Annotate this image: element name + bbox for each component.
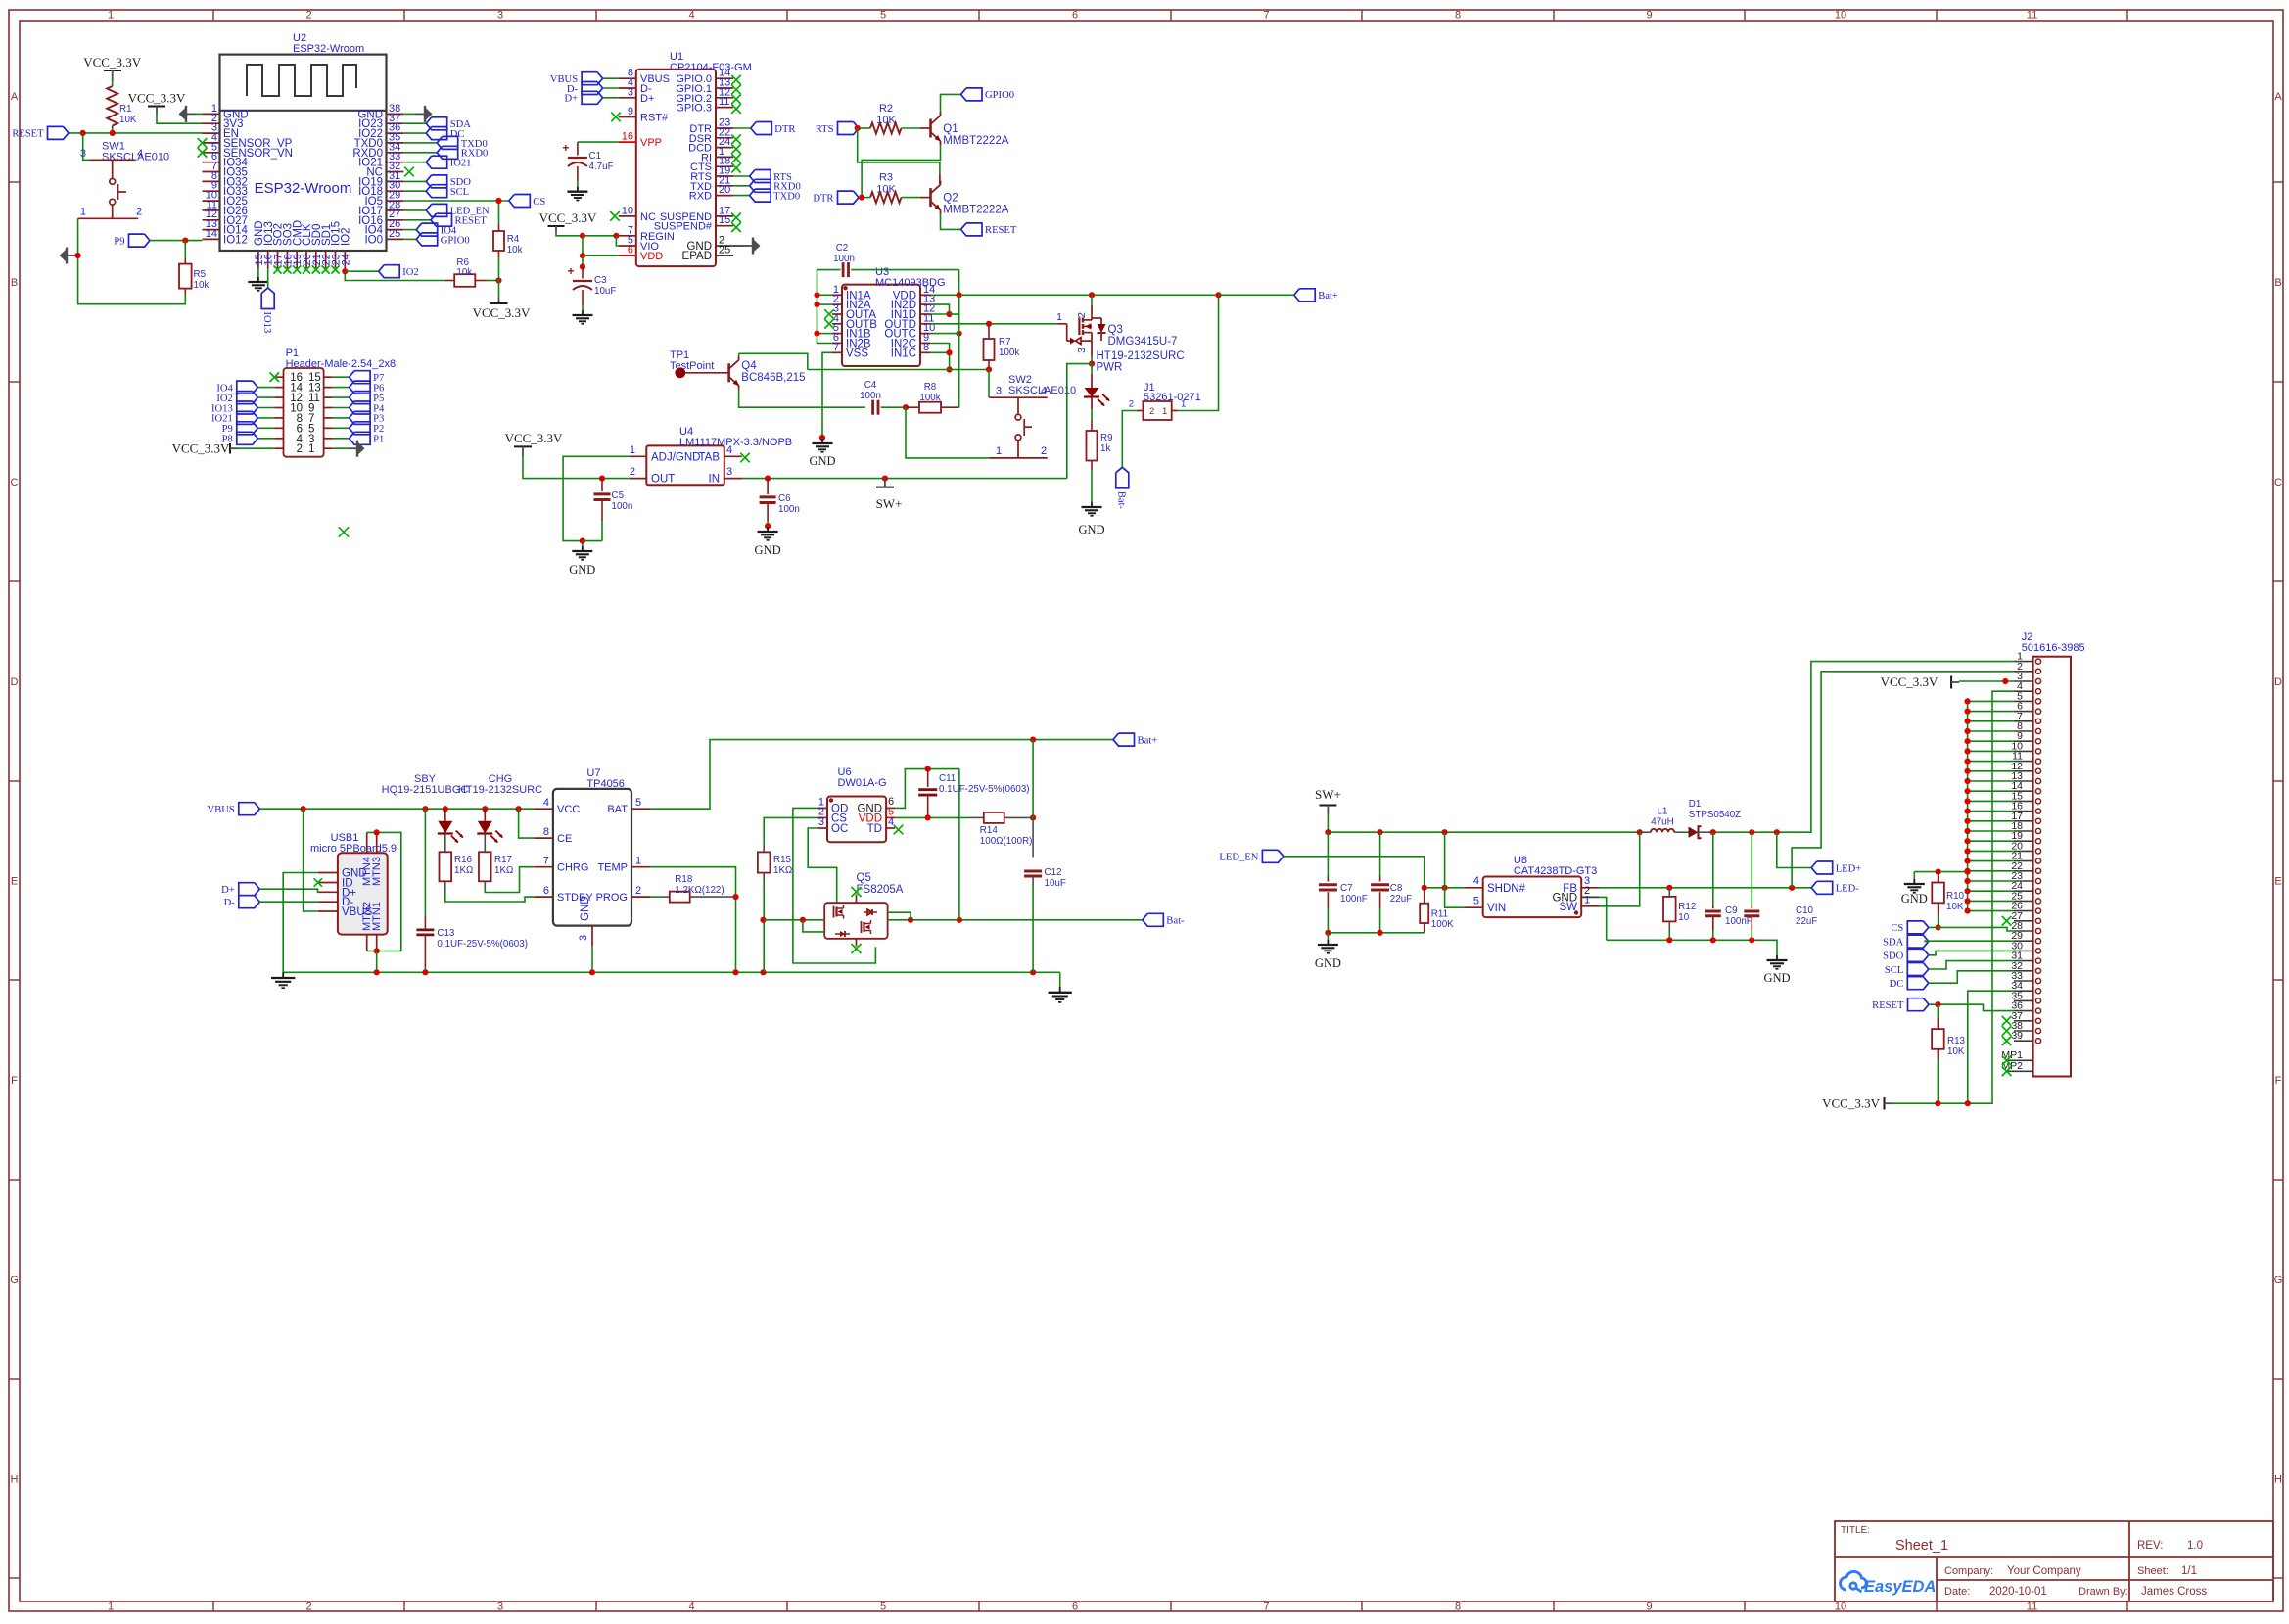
netflag P9 (P1 left) (257, 427, 274, 429)
svg-text:10k: 10k (194, 280, 210, 291)
U1 pin 18 CTS (716, 165, 733, 167)
svg-text:4: 4 (137, 148, 143, 160)
U2 pin 36 IO22 (387, 132, 404, 134)
U3 pin 2 IN2A (832, 303, 842, 305)
no-connect X P1 pin16 (270, 372, 280, 382)
J2 pin 36 (2014, 1010, 2033, 1012)
resistor R2 10K (zigzag) (870, 123, 902, 134)
junction (946, 311, 952, 317)
svg-text:VCC_3.3V: VCC_3.3V (128, 91, 186, 106)
svg-text:MTN1: MTN1 (371, 902, 383, 931)
USB1 pin VBUS (318, 910, 338, 912)
junction (957, 292, 962, 298)
J2 pin 18 (2014, 830, 2033, 832)
svg-text:MMBT2222A: MMBT2222A (943, 205, 1008, 216)
svg-text:4: 4 (726, 444, 732, 456)
wire J2 pin 15 (1968, 800, 2014, 802)
svg-text:SW+: SW+ (876, 496, 903, 511)
P1 pin 4 (274, 438, 283, 440)
IC U6 DW01A-G (827, 797, 886, 843)
wire R7 bottom row (808, 369, 989, 371)
U2 pin 12 IO27 (203, 219, 220, 221)
no-connect X Q5 top (852, 887, 862, 897)
svg-text:C12: C12 (1045, 867, 1062, 878)
svg-text:100n: 100n (833, 254, 855, 264)
wire Q1 collector to GPIO0 (941, 94, 961, 112)
resistor R16 1K (444, 843, 446, 852)
gnd earth boost output (1776, 955, 1778, 960)
P1 pin 6 (274, 427, 283, 429)
netflag TXD0 (U1 RXD) (733, 195, 750, 197)
J2 pin 8 (2014, 730, 2033, 732)
svg-text:3: 3 (497, 10, 503, 22)
U2 pin 16 IO13 (267, 251, 269, 268)
svg-text:P4: P4 (373, 403, 385, 414)
netflag D- (USB) (239, 896, 259, 908)
svg-text:C6: C6 (778, 493, 791, 504)
svg-text:SCL: SCL (450, 187, 469, 198)
netflag DTR (Q2) (838, 191, 860, 204)
netflag Bat+ (charger) (1113, 733, 1135, 746)
U2 pin 38 GND (387, 113, 404, 115)
wire L1 to D1 (1684, 831, 1689, 833)
junction (925, 766, 931, 772)
U2 pin 6 IO34 (203, 162, 220, 163)
wire VBUS pin (304, 809, 318, 911)
resistor R11 100K (1424, 888, 1425, 904)
netflag LED- (1811, 881, 1833, 894)
no-connect X USB ID (314, 878, 322, 886)
J2 pin 39 (2014, 1040, 2033, 1042)
P1 pin 7 (324, 417, 333, 419)
U8 pin 2 GND (1581, 896, 1599, 898)
svg-text:1: 1 (1162, 406, 1167, 417)
U2 pin 8 IO32 (203, 180, 220, 182)
svg-text:C2: C2 (836, 243, 849, 254)
netflag D+ (U1) (582, 91, 603, 104)
svg-text:R3: R3 (879, 172, 893, 184)
svg-text:Sheet:: Sheet: (2137, 1565, 2169, 1577)
wire Q5 G2 jog (888, 912, 911, 920)
junction (1936, 869, 1941, 875)
capacitor C1 4.7uF (577, 142, 579, 155)
no-connect X U3 OUTA (824, 309, 834, 319)
gnd arrow flag U1 GND (743, 245, 749, 247)
U2 pin 10 IO25 (203, 200, 220, 202)
resistor R3 10K (zigzag) (870, 192, 902, 203)
svg-text:P9: P9 (222, 424, 233, 435)
junction (1325, 829, 1331, 835)
no-connect X (293, 265, 301, 273)
U3 pin 11 OUTD (920, 323, 930, 325)
junction (2002, 678, 2008, 684)
wire RESET to EN (69, 132, 203, 134)
capacitor C2 100n (817, 269, 841, 271)
svg-text:C13: C13 (437, 928, 455, 939)
svg-text:HQ19-2151UBGC: HQ19-2151UBGC (382, 784, 469, 796)
svg-text:22uF: 22uF (1390, 894, 1412, 905)
J2 pin 32 (2014, 970, 2033, 972)
no-connect X U3 OUTB (824, 319, 834, 329)
junction (1089, 361, 1095, 367)
svg-text:4: 4 (688, 1601, 694, 1613)
svg-text:L1: L1 (1658, 807, 1668, 817)
inductor L1 47uH (1640, 831, 1651, 833)
U2 pin 15 GND (257, 251, 259, 268)
wire J1 pin1 to Bat+ column (1178, 295, 1218, 410)
no-connect X J2 pin 38 (2002, 1026, 2012, 1036)
wire J2 pin 10 (1968, 750, 2014, 752)
svg-text:11: 11 (719, 96, 729, 108)
svg-text:P6: P6 (373, 383, 384, 394)
P1 pin 16 (274, 376, 283, 378)
svg-text:4: 4 (543, 797, 549, 809)
svg-text:5: 5 (880, 10, 886, 22)
wire Bat- row through Q5 (764, 919, 824, 921)
U3 pin 14 VDD (920, 294, 930, 296)
capacitor C13 0.1UF (424, 809, 426, 916)
resistor R18 1.2K (662, 896, 670, 898)
svg-text:VCC: VCC (557, 804, 580, 815)
svg-text:3: 3 (818, 816, 824, 828)
svg-text:10K: 10K (876, 184, 896, 196)
svg-text:R7: R7 (999, 337, 1011, 348)
wire J1 pin2 to Bat- (1122, 411, 1137, 468)
svg-text:4: 4 (1041, 386, 1047, 397)
svg-text:2: 2 (1041, 445, 1047, 457)
wire J2 pin 24 (1968, 890, 2014, 892)
led PWR HT19-2132SURC (1091, 364, 1093, 374)
svg-text:RESET: RESET (455, 216, 488, 227)
junction R6 right (495, 277, 501, 283)
svg-text:GND: GND (755, 543, 781, 557)
U2 pin 1 GND (203, 113, 220, 115)
no-connect X J2 MP1 (2002, 1056, 2012, 1066)
svg-text:5: 5 (635, 797, 641, 809)
svg-text:2: 2 (635, 885, 641, 897)
svg-text:VCC_3.3V: VCC_3.3V (539, 210, 597, 225)
wire C4/R8 junction to SW2 pin1 (906, 407, 989, 458)
svg-text:PWR: PWR (1097, 362, 1123, 374)
svg-text:4: 4 (688, 10, 694, 22)
resistor R13 10K (1937, 1004, 1939, 1018)
wire VCC to OUT (523, 456, 630, 478)
svg-text:3: 3 (726, 466, 732, 478)
resistor R14 100R (968, 816, 984, 818)
J2 pin 24 (2014, 890, 2033, 892)
junction (1030, 814, 1036, 820)
svg-text:FS8205A: FS8205A (857, 884, 904, 896)
svg-text:10uF: 10uF (1045, 878, 1066, 889)
U1 pin 17 SUSPEND (716, 215, 733, 217)
svg-text:IN: IN (709, 474, 721, 486)
U2 pin 37 IO23 (387, 122, 404, 124)
svg-text:P1: P1 (373, 435, 384, 445)
U7 pin 8 CE (534, 837, 553, 839)
svg-text:TP4056: TP4056 (586, 778, 625, 790)
U1 pin 12 GPIO.2 (716, 97, 733, 99)
wire VSS to GND (822, 352, 832, 438)
svg-text:VBUS: VBUS (208, 805, 235, 815)
svg-text:HT19-2132SURC: HT19-2132SURC (1097, 350, 1185, 362)
svg-text:ADJ/GND: ADJ/GND (651, 451, 700, 463)
svg-text:F: F (2275, 1075, 2282, 1087)
svg-text:+: + (567, 264, 574, 278)
P1 pin 15 (324, 376, 333, 378)
svg-text:DW01A-G: DW01A-G (838, 777, 887, 789)
U1 pin 10 NC (619, 215, 636, 217)
svg-text:1: 1 (1181, 399, 1186, 410)
svg-text:E: E (11, 876, 18, 888)
U1 pin 23 DTR (716, 127, 733, 129)
svg-text:R10: R10 (1946, 891, 1965, 902)
U6 pin 1 OD (817, 807, 827, 809)
wire Q2 emitter to RESET (941, 214, 961, 230)
svg-text:0.1UF-25V-5%(0603): 0.1UF-25V-5%(0603) (437, 939, 528, 950)
J2 pin 21 (2014, 860, 2033, 862)
svg-text:1: 1 (308, 443, 314, 455)
junction (422, 806, 428, 812)
svg-text:IO2: IO2 (402, 267, 418, 278)
wire GND bus vertical (1967, 701, 1969, 910)
capacitor C12 10uF (1032, 817, 1034, 857)
power flag SW+ (bar down) (882, 476, 888, 482)
J2 pin 33 (2014, 980, 2033, 982)
transistor Q1 MMBT2222A (929, 119, 932, 138)
wire R17 to CHRG (485, 867, 534, 893)
svg-text:20: 20 (719, 184, 730, 196)
svg-text:5: 5 (880, 1601, 886, 1613)
svg-text:11: 11 (2027, 10, 2037, 22)
junction (765, 523, 771, 529)
svg-text:P5: P5 (373, 394, 384, 404)
wire R15 bottom to Bat- row and gnd rail (763, 882, 765, 972)
svg-text:CS: CS (533, 197, 545, 208)
wire U8 SW to rail (1599, 832, 1640, 906)
svg-text:RESET: RESET (12, 129, 44, 140)
no-connect X U2 pin32 NC (404, 167, 414, 177)
svg-text:7: 7 (1263, 1601, 1269, 1613)
junction (1442, 829, 1448, 835)
J2 pin 16 (2014, 811, 2033, 812)
boost output rail (1713, 666, 1811, 833)
netflag VBUS (charger) (239, 803, 259, 815)
svg-text:2: 2 (136, 207, 142, 218)
svg-text:1: 1 (630, 444, 635, 456)
capacitor C4 100n (871, 400, 874, 415)
capacitor C11 0.1UF (927, 769, 929, 787)
J2 pin 17 (2014, 820, 2033, 822)
svg-text:10uF: 10uF (594, 286, 616, 297)
wire J2 pin 12 (1968, 770, 2014, 772)
no-connect X U1 NC (610, 211, 620, 221)
junction (301, 806, 306, 812)
svg-text:CS: CS (1891, 923, 1903, 934)
junction (374, 829, 380, 835)
wire VDD row (895, 816, 968, 818)
no-connect X Q5 bottom (852, 944, 862, 953)
svg-text:H: H (2274, 1474, 2282, 1486)
svg-text:1KΩ: 1KΩ (454, 865, 473, 876)
capacitor C9 100nF (1712, 832, 1714, 905)
J2 pin 7 (2014, 720, 2033, 722)
USB1 mounting pins MTN2 MTN1 (366, 935, 368, 951)
wire OUTD pin11 to Q3 gate (930, 323, 1057, 325)
U3 pin 1 IN1A (832, 294, 842, 296)
svg-text:GPIO0: GPIO0 (441, 235, 470, 246)
wire J2 pin 13 (1968, 780, 2014, 782)
U2 pin 33 IO21 (387, 162, 404, 163)
wire J2 pin2 (LED-) (1821, 672, 2014, 675)
no-connect X (U1 right) (731, 104, 741, 114)
no-connect X (U1 right) (731, 154, 741, 163)
netflag RESET (Q2) (961, 223, 983, 236)
svg-text:GND: GND (1078, 523, 1104, 536)
IC U4 LM1117MPX-3.3/NOPB (646, 445, 724, 485)
junction (732, 969, 738, 975)
IC U1 CP2104-F03-GM (636, 70, 716, 266)
svg-text:9: 9 (1646, 1601, 1652, 1613)
junction (819, 435, 825, 441)
netflag P4 (P1 right) (333, 407, 350, 409)
U2 pin 18 SO3 (286, 251, 288, 268)
wire MTN loop (367, 832, 401, 951)
svg-text:R18: R18 (675, 874, 693, 885)
U2 pin 11 IO26 (203, 209, 220, 211)
svg-text:Your Company: Your Company (2007, 1565, 2081, 1577)
U7 pin 5 BAT (631, 808, 651, 810)
wire J2 pin 14 (1968, 790, 2014, 792)
svg-text:6: 6 (1072, 10, 1078, 22)
svg-text:1: 1 (80, 207, 86, 218)
J2 pin 5 (2014, 700, 2033, 702)
U1 pin 8 VBUS (619, 77, 636, 79)
svg-text:0.1UF-25V-5%(0603): 0.1UF-25V-5%(0603) (939, 784, 1030, 795)
svg-text:IO13: IO13 (261, 312, 272, 334)
svg-text:100n: 100n (778, 504, 800, 515)
svg-text:3: 3 (1076, 348, 1088, 353)
junction (1749, 829, 1754, 835)
wire OD to Q5 gate2 (793, 808, 876, 963)
svg-text:VCC_3.3V: VCC_3.3V (1881, 674, 1939, 689)
connector J1 53261-0271 (1143, 401, 1171, 420)
svg-text:RST#: RST# (640, 113, 669, 124)
junction (765, 476, 771, 482)
U1 pin 24 DCD (716, 147, 733, 149)
resistor R1 10K (107, 86, 117, 126)
netflag CS (J2) (1907, 921, 1929, 934)
svg-text:BAT: BAT (607, 804, 628, 815)
no-connect X (U1 right) (731, 144, 741, 154)
LED- / FB row (1599, 887, 1811, 889)
P1 pin 12 (274, 396, 283, 398)
svg-text:Drawn By:: Drawn By: (2079, 1586, 2128, 1598)
J2 pin 26 (2014, 910, 2033, 912)
connector J2 501616-3985 (2033, 657, 2071, 1077)
svg-text:C8: C8 (1390, 883, 1403, 894)
netflag SCL (U2 right) (403, 190, 426, 192)
netflag SDA (U2 right) (403, 122, 426, 124)
junction (760, 917, 766, 923)
svg-text:IO0: IO0 (364, 234, 383, 246)
J2 pin 31 (2014, 960, 2033, 962)
module U2 ESP32-Wroom (220, 55, 387, 251)
svg-text:10k: 10k (456, 267, 472, 278)
svg-text:Company:: Company: (1944, 1565, 1993, 1577)
svg-text:25: 25 (719, 245, 730, 256)
svg-text:100nF: 100nF (1725, 916, 1752, 927)
wire U3 input bus left (817, 270, 833, 344)
svg-text:1k: 1k (1100, 443, 1110, 454)
svg-text:G: G (2274, 1275, 2283, 1286)
svg-text:RESET: RESET (985, 225, 1017, 236)
junction (516, 806, 522, 812)
svg-text:R16: R16 (454, 855, 473, 865)
svg-text:Q2: Q2 (943, 193, 958, 205)
U2 pin 29 IO5 (387, 200, 404, 202)
wire Q4 collector up (738, 353, 740, 356)
junction (800, 917, 806, 923)
junction (422, 969, 428, 975)
svg-text:47uH: 47uH (1651, 817, 1673, 828)
U1 pin 7 REGIN (619, 235, 636, 237)
USB1 mounting pins MTN4 MTN3 (366, 832, 368, 853)
wire CE branch (519, 809, 535, 838)
svg-text:6: 6 (1072, 1601, 1078, 1613)
J2 pin 13 (2014, 780, 2033, 782)
no-connect X (303, 265, 310, 273)
junction (947, 349, 953, 355)
netflag P9 (129, 234, 151, 247)
svg-text:D+: D+ (221, 885, 235, 896)
svg-text:501616-3985: 501616-3985 (2022, 642, 2085, 654)
svg-text:VCC_3.3V: VCC_3.3V (1822, 1096, 1880, 1111)
resistor R9 1k (1091, 409, 1093, 420)
junction (182, 238, 188, 244)
junction (80, 130, 86, 136)
netflag D- (U1) (582, 82, 603, 95)
wire Q5 right to Bat- (888, 919, 1143, 921)
svg-text:4.7uF: 4.7uF (589, 162, 614, 172)
U2 pin 28 IO17 (387, 209, 404, 211)
svg-text:GPIO.3: GPIO.3 (676, 103, 712, 115)
resistor R5 10k (184, 258, 186, 264)
svg-text:3: 3 (578, 935, 589, 941)
svg-text:VIN: VIN (1487, 903, 1506, 914)
wire ADJ to GND loop (563, 456, 630, 540)
svg-text:LED_EN: LED_EN (1219, 853, 1258, 863)
svg-text:Q3: Q3 (1108, 324, 1123, 336)
gnd arrow flag P1 pin1 (333, 447, 349, 449)
junction (75, 253, 81, 258)
svg-text:R12: R12 (1678, 902, 1696, 912)
svg-text:GND: GND (809, 454, 835, 468)
EasyEDA logo (1841, 1571, 1867, 1592)
svg-text:C5: C5 (612, 490, 625, 501)
svg-text:10K: 10K (876, 115, 896, 126)
svg-text:15: 15 (719, 214, 730, 226)
USB1 pin ID (318, 882, 338, 884)
svg-text:D+: D+ (640, 93, 654, 105)
J2 pin 3 (2014, 680, 2033, 682)
P1 pin 11 (324, 396, 333, 398)
svg-text:10K: 10K (119, 115, 137, 125)
svg-text:DC: DC (1890, 979, 1904, 990)
svg-text:A: A (2274, 91, 2282, 103)
svg-text:ESP32-Wroom: ESP32-Wroom (293, 43, 364, 55)
wire SDO to pin30 (1929, 951, 2014, 954)
junction (1030, 737, 1036, 743)
